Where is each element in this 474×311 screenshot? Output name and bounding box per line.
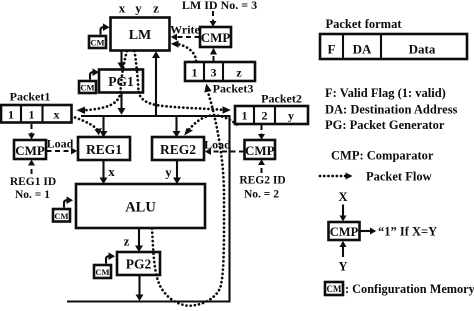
- dashed wire CMP2 to REG2 (Load): [204, 138, 244, 156]
- svg-text:LM: LM: [129, 28, 152, 43]
- dashed wire CMP to LM (Write): [170, 23, 200, 41]
- dashed wire REG2 ID to CMP2: [258, 159, 265, 173]
- svg-text:3: 3: [211, 66, 217, 80]
- svg-text:Write: Write: [170, 23, 200, 37]
- wire REG2 to ALU (y): [165, 160, 181, 184]
- legend: wire X to CMP: [340, 205, 347, 222]
- wire bottom feedback line: [67, 300, 231, 302]
- register REG1: [78, 137, 130, 160]
- svg-text:y: y: [165, 165, 172, 180]
- dotted packet flow PG1 to Packet1: [77, 92, 121, 114]
- wire bus up into LM: [152, 51, 160, 115]
- svg-text:CMP: CMP: [245, 143, 275, 158]
- wire bus to REG2: [173, 115, 181, 137]
- dashed wire Packet3 to CMP top: [210, 48, 217, 61]
- dotted packet flow Packet3 to LM: [171, 41, 196, 62]
- register REG2: [152, 137, 204, 160]
- legend: wire CMP output: [360, 225, 437, 239]
- svg-text:CMP: CMP: [201, 30, 231, 45]
- dotted packet flow LM to PG1 (right): [135, 51, 139, 92]
- svg-text:Packet Flow: Packet Flow: [366, 170, 432, 184]
- wire bus to REG1: [100, 115, 108, 137]
- svg-text:Data: Data: [409, 42, 436, 57]
- svg-text:DA: Destination Address: DA: Destination Address: [325, 103, 458, 117]
- svg-text:PG2: PG2: [126, 256, 152, 271]
- svg-text:CM: CM: [95, 267, 109, 277]
- svg-text:1: 1: [8, 108, 14, 122]
- svg-text:x: x: [119, 1, 126, 16]
- dashed wire Packet1 to CMP1: [28, 124, 35, 140]
- dotted packet flow PG1 to Packet2: [139, 92, 231, 114]
- svg-text:CMP: Comparator: CMP: Comparator: [331, 149, 434, 163]
- configuration memory CM1 (at LM): [89, 23, 110, 48]
- svg-text:y: y: [288, 109, 294, 123]
- svg-text:REG1 ID: REG1 ID: [10, 176, 56, 188]
- wire right vertical feedback: [228, 115, 230, 302]
- configuration memory CM2 (at PG1): [79, 68, 99, 93]
- Packet1 register: [1, 105, 72, 123]
- svg-text:z: z: [236, 66, 242, 80]
- svg-text:y: y: [135, 1, 142, 16]
- dashed wire LM ID to CMP top: [210, 11, 217, 27]
- svg-text:1: 1: [192, 66, 198, 80]
- svg-text:x: x: [108, 164, 115, 179]
- packet generator PG2: [117, 252, 160, 275]
- svg-text:F: Valid Flag (1: valid): F: Valid Flag (1: valid): [325, 86, 446, 100]
- ALU: [76, 184, 205, 228]
- svg-text:PG: Packet Generator: PG: Packet Generator: [325, 118, 445, 132]
- wire PG2 to bottom line: [136, 275, 144, 301]
- Packet2 register: [235, 106, 308, 124]
- legend: packet flow symbol: [320, 170, 432, 184]
- svg-text:Y: Y: [338, 260, 347, 274]
- dotted packet flow LM to PG1 (left): [121, 51, 128, 92]
- svg-text:“1” If X=Y: “1” If X=Y: [378, 225, 437, 239]
- wire ALU to PG2 (z): [124, 228, 143, 252]
- packet generator PG1: [99, 70, 143, 93]
- configuration memory CM4 (at PG2): [94, 252, 115, 278]
- legend: CM configuration memory: [325, 282, 474, 296]
- svg-text:REG2 ID: REG2 ID: [239, 175, 285, 187]
- local memory LM: [111, 18, 170, 51]
- dotted packet flow Packet1 to REG1: [75, 118, 102, 136]
- svg-text:No. = 1: No. = 1: [15, 189, 50, 201]
- svg-text:1: 1: [29, 108, 35, 122]
- svg-text:F: F: [328, 42, 336, 57]
- wire horizontal bus: [81, 115, 231, 117]
- legend: wire Y to CMP: [340, 241, 347, 257]
- svg-text:Load: Load: [47, 137, 74, 151]
- comparator CMP1: [14, 140, 46, 159]
- legend: packet format register: [320, 34, 467, 59]
- svg-text:: Configuration Memory: : Configuration Memory: [345, 282, 474, 296]
- svg-text:No. = 2: No. = 2: [244, 189, 279, 201]
- wire LM to PG1: [118, 51, 126, 70]
- svg-text:CM: CM: [54, 211, 68, 221]
- svg-text:z: z: [153, 1, 159, 16]
- svg-text:CM: CM: [90, 38, 104, 48]
- comparator CMP2: [245, 140, 276, 159]
- dotted packet flow ALU through PG2, under bottom line, up to Packet3: [152, 84, 224, 306]
- dashed wire CMP1 to REG1 (Load): [47, 137, 78, 155]
- REG2 ID No. = 2 label: [239, 175, 285, 201]
- legend: comparator CMP example: [329, 222, 360, 240]
- svg-text:REG2: REG2: [160, 142, 196, 157]
- Packet3 register: [185, 62, 255, 81]
- svg-text:CMP: CMP: [330, 225, 359, 239]
- REG1 ID No. = 1 label: [10, 176, 56, 201]
- comparator CMP (LM): [200, 27, 231, 47]
- svg-text:Packet2: Packet2: [261, 92, 302, 106]
- dotted packet flow Packet2 to REG2: [184, 115, 237, 135]
- svg-text:ALU: ALU: [125, 199, 156, 215]
- svg-text:Packet1: Packet1: [10, 90, 51, 104]
- svg-text:CMP: CMP: [15, 143, 45, 158]
- svg-text:REG1: REG1: [86, 142, 122, 157]
- svg-text:z: z: [124, 234, 130, 249]
- svg-text:Load: Load: [204, 138, 231, 152]
- wire REG1 to ALU (x): [100, 160, 116, 184]
- svg-text:X: X: [338, 190, 347, 204]
- svg-text:1: 1: [242, 109, 248, 123]
- configuration memory CM3 (at ALU): [53, 196, 73, 221]
- svg-text:DA: DA: [353, 42, 372, 57]
- svg-text:LM ID No. = 3: LM ID No. = 3: [182, 0, 257, 12]
- svg-text:2: 2: [262, 109, 268, 123]
- svg-text:Packet3: Packet3: [213, 82, 254, 96]
- svg-text:CM: CM: [80, 83, 94, 93]
- wire PG1 down to bus: [118, 93, 126, 115]
- svg-text:x: x: [54, 108, 60, 122]
- dashed wire REG1 ID to CMP1: [28, 160, 35, 175]
- svg-text:CM: CM: [327, 284, 342, 294]
- dashed wire Packet2 to CMP2: [258, 125, 265, 140]
- svg-text:Packet format: Packet format: [326, 17, 403, 31]
